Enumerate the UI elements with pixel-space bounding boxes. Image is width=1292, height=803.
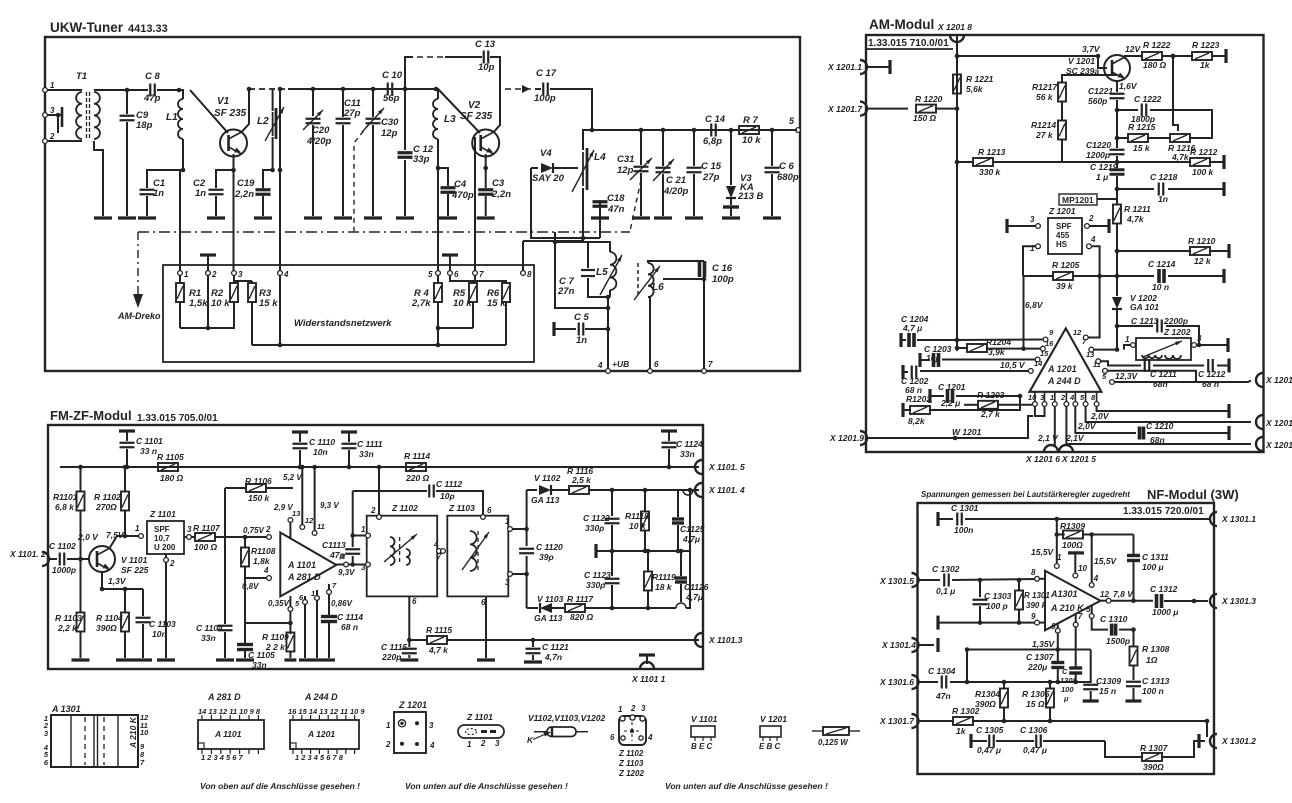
svg-text:2: 2 (49, 132, 55, 141)
pinout A1301 right pins (140, 713, 149, 767)
row X1101.3 (409, 639, 428, 641)
svg-text:3: 3 (50, 106, 55, 115)
wire dashed gang (354, 124, 369, 231)
svg-text:R 1308: R 1308 (1142, 644, 1170, 654)
svg-text:1500p: 1500p (1106, 636, 1130, 646)
svg-text:NF-Modul (3W): NF-Modul (3W) (1147, 487, 1239, 502)
wire (992, 156, 1117, 168)
svg-text:X 1101. 2: X 1101. 2 (9, 549, 46, 559)
svg-text:2: 2 (265, 525, 271, 534)
pinout Z1101 body (458, 725, 504, 738)
capacitor C19 (234, 170, 273, 216)
svg-text:15 n: 15 n (1099, 686, 1116, 696)
svg-text:4,7k: 4,7k (1171, 152, 1190, 162)
svg-text:33n: 33n (252, 660, 267, 670)
capacitor C1309 15n (1083, 676, 1122, 701)
svg-text:2,2 k: 2,2 k (57, 623, 78, 633)
network terminal 3 (232, 270, 243, 279)
bottom pin circles (1033, 402, 1100, 407)
wire (1115, 309, 1120, 328)
svg-text:C 1304: C 1304 (928, 666, 956, 676)
wire emitter (100, 572, 143, 591)
svg-text:R 1106: R 1106 (245, 476, 272, 486)
svg-text:47p: 47p (329, 550, 345, 560)
svg-text:13: 13 (292, 509, 301, 518)
pinout A244D bottom pins (293, 749, 355, 762)
svg-text:X 1201.7: X 1201.7 (827, 104, 863, 114)
svg-text:Von oben auf die Anschlüsse ge: Von oben auf die Anschlüsse gesehen ! (200, 781, 360, 791)
svg-text:C: C (1062, 667, 1068, 676)
resistor R1118 10k (625, 488, 649, 554)
capacitor C30 (362, 87, 399, 216)
svg-text:C 17: C 17 (536, 68, 557, 79)
connector X1201.4 (1256, 373, 1292, 387)
svg-text:12: 12 (1100, 590, 1109, 599)
svg-text:2: 2 (370, 506, 376, 515)
filter Z1101 SPF10,7 (147, 509, 184, 554)
capacitor C1221 560p (1088, 86, 1125, 106)
svg-text:3: 3 (361, 563, 366, 572)
resistor R2 10k (211, 275, 238, 315)
svg-text:X 1201 8: X 1201 8 (937, 22, 972, 32)
svg-text:C 1307: C 1307 (1026, 652, 1055, 662)
row X1301.6 (919, 681, 938, 683)
title NF-Modul (3W) (1147, 487, 1239, 502)
svg-text:2,2n: 2,2n (234, 189, 254, 200)
svg-text:SF 235: SF 235 (214, 108, 247, 119)
svg-text:UKW-Tuner: UKW-Tuner (50, 20, 124, 35)
svg-text:6,8p: 6,8p (703, 136, 722, 147)
pin5 C1310 (1086, 605, 1136, 647)
svg-text:10,5 V: 10,5 V (1000, 360, 1026, 370)
bottom pin stubs (1035, 392, 1097, 402)
svg-text:1: 1 (1057, 553, 1062, 562)
ground (157, 658, 175, 661)
resistor R1221 5,6k (953, 74, 994, 94)
svg-text:R 1210: R 1210 (1188, 236, 1216, 246)
Z1103 pin3 (505, 572, 529, 587)
wire (1115, 240, 1120, 296)
module box NF-Modul (918, 503, 1215, 774)
svg-text:A 244 D: A 244 D (304, 692, 338, 702)
wire pin12 (1088, 276, 1100, 338)
wire (47, 113, 60, 118)
svg-text:C 1110: C 1110 (309, 437, 335, 447)
svg-text:6: 6 (454, 270, 459, 279)
svg-text:2,7 k: 2,7 k (980, 409, 1001, 419)
capacitor C15 (687, 128, 722, 216)
ground (400, 658, 418, 661)
svg-text:Von unten auf die Anschlüsse g: Von unten auf die Anschlüsse gesehen ! (665, 781, 828, 791)
svg-text:A 244 D: A 244 D (1047, 376, 1081, 386)
terminal 7 (702, 360, 713, 373)
svg-text:100 n: 100 n (1142, 686, 1164, 696)
svg-text:X 1301.6: X 1301.6 (879, 677, 914, 687)
svg-text:8: 8 (1031, 568, 1036, 577)
resistor R1302 1k (952, 706, 1209, 736)
capacitor C21 (653, 128, 688, 216)
svg-text:A1301: A1301 (1050, 589, 1078, 599)
transistor V1201 SC239a (1066, 55, 1130, 81)
svg-text:1,3V: 1,3V (108, 576, 127, 586)
capacitor C1307 220u (1026, 650, 1064, 683)
wire (648, 261, 704, 263)
svg-text:2200p: 2200p (1163, 316, 1188, 326)
capacitor C1202 68n (901, 365, 1028, 395)
ground (299, 658, 311, 661)
svg-text:12,3V: 12,3V (1115, 371, 1139, 381)
svg-text:C 1312: C 1312 (1150, 584, 1178, 594)
svg-text:9,3V: 9,3V (338, 568, 355, 577)
resistor R1108 1,8k (241, 537, 276, 578)
wire rail a (180, 275, 234, 330)
capacitor C1105 33n (237, 645, 275, 671)
title UKW-Tuner 4413.33 (50, 20, 168, 35)
amplifier A1101 A281D (280, 533, 336, 597)
svg-text:R 1307: R 1307 (1140, 743, 1169, 753)
resistor R1109 2,2k (262, 632, 294, 658)
wire right col (686, 490, 690, 608)
AM-Dreko arrow (117, 232, 161, 321)
svg-text:15 k: 15 k (1133, 143, 1151, 153)
svg-text:0,47 μ: 0,47 μ (1023, 745, 1048, 755)
svg-text:C 1310: C 1310 (1100, 614, 1128, 624)
capacitor C1124 33n (661, 431, 703, 469)
pin5 row (1086, 406, 1251, 422)
capacitor C1302 0,1u (932, 564, 1035, 596)
capacitor C1123 330p (584, 551, 620, 610)
svg-text:4: 4 (433, 540, 439, 549)
svg-text:4: 4 (1090, 235, 1096, 244)
capacitor C11 (336, 87, 361, 216)
svg-text:1: 1 (505, 517, 510, 526)
svg-text:4/20p: 4/20p (663, 186, 688, 197)
svg-text:1n: 1n (1158, 194, 1168, 204)
svg-text:SF 225: SF 225 (121, 565, 149, 575)
connector X1101.1 (631, 655, 666, 684)
svg-text:330 k: 330 k (979, 167, 1002, 177)
filter Z1201 SPF455 (1048, 206, 1082, 254)
wire (190, 90, 228, 133)
capacitor C1220 1200p (1086, 140, 1125, 160)
resistor R3 15k (234, 281, 278, 345)
svg-text:100 p: 100 p (986, 601, 1008, 611)
capacitor C1112 10p (353, 479, 492, 519)
svg-text:4,7 k: 4,7 k (428, 645, 449, 655)
svg-text:A 281 D: A 281 D (287, 572, 321, 582)
capacitor C1115 220p (381, 640, 417, 662)
resistor R1301 390k (1015, 580, 1050, 625)
network terminal 4 (278, 270, 289, 279)
svg-text:7: 7 (479, 270, 484, 279)
Z1102 pin2 (370, 465, 381, 520)
part number 1.33.015 720.0/01 (1123, 506, 1204, 517)
svg-text:100 μ: 100 μ (1142, 562, 1165, 572)
svg-text:B E C: B E C (691, 742, 713, 751)
voltage 0,75V pin2 (243, 525, 271, 535)
svg-text:12p: 12p (381, 128, 398, 139)
svg-text:390 k: 390 k (1026, 601, 1047, 610)
label W1201 (952, 427, 982, 440)
svg-text:5,2 V: 5,2 V (283, 473, 302, 482)
svg-text:C18: C18 (607, 193, 625, 204)
caption von unten 2 (665, 781, 828, 791)
svg-text:1000p: 1000p (52, 565, 76, 575)
capacitor C1303 100p (973, 580, 1012, 625)
module box UKW-Tuner (45, 37, 800, 371)
ground (311, 658, 323, 661)
connector X1301.6 (879, 675, 919, 689)
ground (118, 216, 136, 219)
wire (1105, 741, 1143, 757)
svg-text:33p: 33p (413, 154, 430, 165)
svg-text:8: 8 (527, 270, 532, 279)
svg-text:R 7: R 7 (743, 115, 759, 126)
svg-text:R 1117: R 1117 (567, 594, 594, 604)
svg-text:X 1201.: X 1201. (1265, 375, 1292, 385)
capacitor C1204 4,7u (901, 314, 957, 347)
label MP1201 (1059, 194, 1117, 205)
svg-text:180 Ω: 180 Ω (160, 473, 184, 483)
wire pin1 down (1054, 406, 1056, 447)
svg-text:A 281 D: A 281 D (207, 692, 241, 702)
svg-text:2: 2 (211, 270, 217, 279)
wire (523, 238, 583, 241)
pinout A1301 label (51, 704, 81, 714)
svg-text:0,125 W: 0,125 W (818, 738, 849, 747)
pin7 (327, 581, 337, 615)
svg-text:E B C: E B C (759, 742, 781, 751)
svg-text:R1108: R1108 (251, 546, 276, 556)
row R1210 12k (1115, 236, 1229, 266)
capacitor C17 (534, 68, 557, 104)
title AM-Modul (869, 17, 934, 32)
svg-text:2,0V: 2,0V (1090, 411, 1110, 421)
row C1218 1n (1117, 172, 1224, 204)
wire (245, 622, 290, 624)
svg-text:4,7μ: 4,7μ (682, 534, 701, 544)
svg-text:C 1201: C 1201 (938, 382, 966, 392)
svg-text:Z 1103: Z 1103 (448, 503, 475, 513)
svg-text:150 Ω: 150 Ω (913, 113, 937, 123)
pin12 (300, 465, 314, 530)
voltage 2,0V a (1090, 411, 1110, 421)
svg-text:C 15: C 15 (701, 161, 722, 172)
row C1211 C1212 (1101, 359, 1230, 390)
svg-text:330ρ: 330ρ (585, 523, 604, 533)
svg-text:1: 1 (50, 81, 55, 90)
svg-text:27n: 27n (557, 286, 575, 297)
Z1102 coils (384, 534, 417, 565)
wire (78, 141, 103, 216)
pinout A281D top pins (198, 707, 261, 720)
wire collector (109, 536, 139, 549)
resistor R1213 330k (973, 147, 1006, 177)
wire (555, 242, 608, 308)
diode V1102 GA113 (527, 473, 570, 505)
pin1b (311, 589, 319, 658)
voltage 1,3V (108, 576, 127, 586)
row C1214 10n (1072, 259, 1224, 292)
svg-text:V4: V4 (540, 148, 552, 159)
voltage 2,0V (77, 532, 99, 542)
wire collector (1098, 56, 1107, 68)
capacitor C1306 0,47u (996, 725, 1105, 755)
svg-text:Widerstandsnetzwerk: Widerstandsnetzwerk (294, 318, 392, 329)
wire (550, 89, 594, 132)
svg-text:C 1303: C 1303 (984, 591, 1012, 601)
svg-text:2: 2 (1060, 393, 1066, 402)
pinout Z1201 label (398, 700, 427, 710)
svg-text:V1: V1 (217, 96, 230, 107)
wire pin11 to conn (1107, 371, 1196, 381)
capacitor C1113 47p (322, 491, 360, 565)
wire bus osc (592, 129, 797, 131)
svg-text:R 1222: R 1222 (1143, 40, 1171, 50)
ground (207, 216, 225, 219)
svg-text:R 1211: R 1211 (1124, 204, 1151, 214)
pinout can body (610, 715, 653, 745)
capacitor C1126 4,7u (675, 549, 709, 608)
resistor R1216 4,7k (1147, 134, 1196, 162)
Z1201 pin3 (1007, 215, 1040, 233)
pinout A1301 left pins (43, 714, 49, 767)
svg-text:C3: C3 (492, 178, 505, 189)
resistor R1304 390 (975, 682, 1008, 723)
caption von unten 1 (405, 781, 568, 791)
terminal 2 (43, 132, 55, 143)
svg-text:R1101: R1101 (53, 492, 78, 502)
svg-text:C1125: C1125 (680, 524, 705, 534)
svg-text:C 1214: C 1214 (1148, 259, 1176, 269)
wire (965, 647, 970, 682)
inductor L5 (596, 252, 622, 295)
wire (522, 241, 524, 271)
ground (439, 216, 457, 219)
svg-text:10 k: 10 k (211, 298, 230, 309)
svg-text:1n: 1n (576, 335, 587, 346)
svg-text:14 13 12 11 10 9 8: 14 13 12 11 10 9 8 (198, 707, 261, 716)
svg-text:X 1201 6: X 1201 6 (1025, 454, 1060, 464)
svg-text:C1113: C1113 (322, 540, 346, 550)
svg-text:SPF: SPF (1056, 222, 1072, 231)
svg-text:X 1301.3: X 1301.3 (1221, 596, 1256, 606)
wire (936, 106, 959, 111)
svg-text:100p: 100p (534, 93, 556, 104)
svg-text:C 1301: C 1301 (951, 503, 979, 513)
svg-text:V 1101: V 1101 (121, 555, 148, 565)
svg-text:15 Ω: 15 Ω (1026, 699, 1045, 709)
svg-text:33n: 33n (680, 449, 695, 459)
main left rail (955, 36, 960, 351)
capacitor C7 (557, 242, 608, 297)
voltage 2,1V (1037, 433, 1085, 443)
wire (1115, 100, 1120, 148)
capacitor C13 (405, 39, 500, 96)
svg-text:100: 100 (1061, 685, 1074, 694)
svg-text:5: 5 (428, 270, 433, 279)
resistor R1101 6,8k (53, 465, 85, 562)
wire (78, 88, 129, 93)
filter Z1202 (1136, 327, 1191, 360)
Z1201 pin2 (1085, 214, 1109, 233)
svg-text:6: 6 (481, 598, 486, 607)
pinout V1101 body (691, 726, 715, 751)
svg-text:C 1213: C 1213 (1131, 316, 1159, 326)
connector X1201.6 (1025, 445, 1060, 464)
connector X1201.1 (827, 60, 890, 74)
svg-text:3,9k: 3,9k (988, 347, 1006, 357)
ground (654, 216, 672, 219)
svg-text:68 n: 68 n (341, 622, 358, 632)
svg-text:X 1201.9: X 1201.9 (829, 433, 864, 443)
svg-text:X 1201 5: X 1201 5 (1061, 454, 1096, 464)
svg-text:C 1115: C 1115 (381, 642, 407, 652)
svg-text:R 1114: R 1114 (404, 451, 430, 461)
svg-text:C 1120: C 1120 (536, 542, 563, 552)
capacitor C1110 10n (292, 432, 335, 469)
Z1102 pin4 (433, 540, 441, 553)
Z1101 pin2 (164, 554, 175, 658)
svg-text:C 1122: C 1122 (583, 513, 610, 523)
svg-text:33 n: 33 n (140, 446, 157, 456)
capacitor C1102 1000p (49, 541, 89, 575)
voltage 15,5V b (1094, 556, 1118, 566)
svg-text:C 1218: C 1218 (1150, 172, 1178, 182)
svg-text:33n: 33n (359, 449, 374, 459)
svg-text:C 6: C 6 (779, 161, 795, 172)
inductor L3 (433, 87, 456, 139)
svg-text:27 k: 27 k (1035, 130, 1054, 140)
feedback row C1222 (1117, 94, 1212, 138)
capacitor C1122 330p (583, 490, 620, 553)
svg-text:7: 7 (1078, 612, 1083, 621)
svg-text:C1220: C1220 (1086, 140, 1111, 150)
row X1301.4 (919, 638, 938, 652)
capacitor C20 (303, 87, 331, 216)
svg-text:C 1102: C 1102 (49, 541, 76, 551)
svg-text:X 1101.3: X 1101.3 (708, 635, 743, 645)
svg-text:100p: 100p (712, 274, 734, 285)
voltage 2,0V b (1077, 421, 1097, 431)
svg-text:5: 5 (1086, 605, 1091, 614)
svg-text:Z 1102: Z 1102 (618, 749, 644, 758)
svg-text:C 14: C 14 (705, 114, 726, 125)
svg-text:+UB: +UB (612, 359, 629, 369)
svg-text:1308: 1308 (1060, 676, 1078, 685)
svg-text:12 k: 12 k (1194, 256, 1212, 266)
resistor R1117 820 (565, 594, 676, 622)
svg-text:Z 1201: Z 1201 (1048, 206, 1076, 216)
resistor R1104 390 (96, 589, 129, 658)
label C1212 68n (1198, 369, 1226, 389)
svg-text:15 k: 15 k (259, 298, 278, 309)
pin8 row (1097, 404, 1229, 418)
svg-text:1: 1 (135, 524, 140, 533)
svg-text:X 1101 1: X 1101 1 (631, 674, 666, 684)
svg-text:2,0V: 2,0V (1077, 421, 1097, 431)
svg-text:C 1306: C 1306 (1020, 725, 1048, 735)
svg-text:68 n: 68 n (1202, 379, 1219, 389)
pin2 circle (267, 535, 272, 540)
capacitor C8 (143, 71, 161, 104)
svg-text:C 1210: C 1210 (1146, 421, 1174, 431)
svg-text:R1217: R1217 (1032, 82, 1058, 92)
network terminal 8 (521, 270, 532, 279)
ground (477, 658, 495, 661)
svg-text:10,7: 10,7 (154, 534, 170, 543)
svg-text:6: 6 (654, 360, 659, 369)
